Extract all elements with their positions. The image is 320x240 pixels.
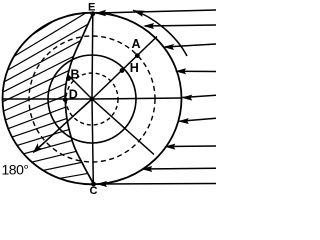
svg-text:H: H — [130, 61, 139, 75]
incident arrow 3 — [165, 44, 216, 47]
incident arrow 6 — [180, 118, 217, 121]
svg-text:A: A — [132, 37, 141, 51]
svg-text:B: B — [71, 67, 80, 81]
radial line E — [92, 98, 182, 99]
point D — [63, 97, 68, 102]
hatching of crescent region — [0, 0, 112, 200]
radial line SE — [92, 99, 154, 155]
incident arrow 9 (to C) — [98, 183, 216, 186]
radial line N (centre to E) — [91, 14, 94, 99]
dashed circle r=63 — [29, 36, 155, 162]
radial line NE through H and A — [92, 37, 157, 100]
radial line S (centre to C) — [92, 99, 93, 183]
incident arrow 1 (to E) — [97, 10, 216, 13]
deflected trajectory curve — [133, 10, 187, 56]
centre point — [90, 97, 94, 101]
radial line W — [3, 98, 93, 100]
svg-text:E: E — [88, 1, 95, 13]
boundary arc E-C of shaded zone — [65, 14, 93, 184]
incident arrow 2 — [145, 25, 216, 26]
incident arrow 7 — [166, 145, 216, 148]
point H — [120, 68, 125, 73]
point C — [91, 182, 96, 187]
outer sphere boundary (large ellipse) — [3, 13, 182, 185]
incident arrow 4 — [177, 70, 217, 72]
point A — [135, 53, 140, 58]
point E — [90, 11, 95, 16]
radial arrow SW (180 degrees back-scatter) — [36, 99, 93, 151]
radial line NW — [68, 75, 92, 99]
incident arrow 5 (axis) — [183, 95, 217, 97]
svg-text:D: D — [69, 88, 78, 102]
svg-text:180°: 180° — [2, 161, 29, 177]
incident arrow 8 — [143, 167, 216, 170]
solid inner circle — [48, 55, 136, 143]
point B — [66, 76, 71, 81]
dashed circle r=26 — [66, 73, 118, 125]
svg-text:C: C — [90, 185, 98, 197]
arrowhead of deflected trajectory — [133, 10, 145, 17]
